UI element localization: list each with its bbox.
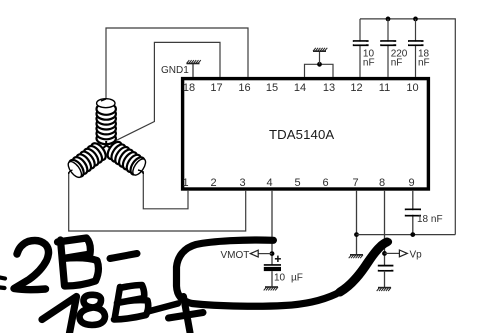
svg-text:5: 5 — [294, 177, 300, 189]
C6 value label 18 nF — [417, 214, 443, 225]
node Vp junction — [382, 251, 387, 256]
node star point junction — [103, 141, 111, 149]
svg-text:12: 12 — [350, 82, 362, 94]
wire L2 end stub — [69, 170, 73, 174]
wire pin 9 down through C6 — [412, 190, 414, 235]
svg-text:18: 18 — [183, 82, 195, 94]
svg-text:7: 7 — [352, 177, 358, 189]
pin 15 label — [266, 82, 278, 94]
node rail junction at C3 — [413, 17, 418, 22]
wire bottom-right coil to pin 1 — [143, 171, 188, 209]
capacitor C5 at pin 8 — [378, 266, 394, 271]
handwritten digit 1 — [42, 297, 77, 333]
svg-text:nF: nF — [391, 57, 403, 68]
wire bracket to ground — [319, 52, 321, 65]
C3 value label 18 nF — [418, 48, 430, 68]
node pin9 bus junction — [410, 232, 415, 237]
node bracket junction — [317, 62, 322, 67]
pin 5 label — [294, 177, 300, 189]
svg-text:14: 14 — [294, 82, 306, 94]
wire top coil to pin 16 — [106, 28, 248, 99]
wire pin 8 down — [384, 190, 386, 266]
C4 value label 10 uF — [274, 273, 303, 284]
svg-text:18 nF: 18 nF — [417, 214, 443, 225]
pin 4 label — [266, 177, 272, 189]
svg-text:µF: µF — [291, 273, 303, 284]
op-amp U1 TDA5140A IC body — [183, 79, 429, 189]
C2 value label 220 nF — [391, 48, 408, 68]
handwritten minus sign — [110, 254, 137, 259]
pin 12 label — [350, 82, 362, 94]
wire C5 to ground — [384, 271, 386, 288]
svg-text:10: 10 — [406, 82, 418, 94]
svg-text:16: 16 — [238, 82, 250, 94]
capacitor C6 18nF — [405, 209, 421, 215]
wire rail to pin 10 through C3 — [415, 19, 417, 77]
svg-text:nF: nF — [418, 57, 430, 68]
handwritten digit 2 — [14, 241, 49, 290]
svg-text:3: 3 — [239, 177, 245, 189]
svg-text:VMOT: VMOT — [221, 250, 250, 261]
pin 16 label — [238, 82, 250, 94]
capacitor C3 18nF — [408, 41, 424, 45]
svg-text:nF: nF — [363, 57, 375, 68]
capacitor C4 10uF polarized — [264, 265, 281, 287]
wire pin 4 to VMOT node — [271, 190, 273, 265]
Vp label — [410, 250, 423, 261]
handwritten marker big curve — [177, 240, 389, 306]
svg-text:13: 13 — [323, 82, 335, 94]
pin 8 label — [379, 177, 385, 189]
handwritten letter B second — [114, 285, 148, 320]
Vp arrow — [399, 250, 407, 257]
node rail junction at C2 — [386, 17, 391, 22]
pin 18 label — [183, 82, 195, 94]
pin 11 label — [379, 82, 390, 94]
ground above pins 14-13 — [313, 48, 327, 51]
wire VMOT branch — [258, 253, 272, 255]
svg-text:1: 1 — [182, 177, 188, 189]
handwritten plus sign — [169, 297, 204, 333]
ground below C5 — [377, 288, 391, 291]
wire pin 7 down to ground — [356, 190, 358, 254]
node VMOT junction — [270, 251, 275, 256]
pin 3 label — [239, 177, 245, 189]
handwritten marker curve rise overlay — [340, 242, 387, 292]
left edge mark — [0, 278, 5, 289]
pin 10 label — [406, 82, 418, 94]
wire bottom-left coil to pin 3 — [69, 172, 246, 231]
svg-text:TDA5140A: TDA5140A — [269, 127, 334, 142]
inductor L3 bottom-right motor winding — [105, 139, 148, 177]
svg-text:GND1: GND1 — [161, 65, 189, 76]
pin 1 label — [182, 177, 188, 189]
capacitor C1 10nF — [353, 41, 369, 45]
svg-text:Vp: Vp — [410, 250, 423, 261]
svg-text:6: 6 — [322, 177, 328, 189]
plus polarity mark C4 — [275, 256, 281, 262]
inductor L2 bottom-left motor winding — [65, 141, 108, 180]
bus wire pins 7-9 to rail drop — [357, 234, 456, 236]
wire Vp branch — [385, 252, 400, 254]
pin 9 label — [408, 177, 414, 189]
handwritten letter B first — [58, 238, 99, 286]
bracket wire pins 14-13 — [305, 64, 334, 77]
wire star point to pin 17 — [107, 42, 220, 145]
pin 2 label — [210, 177, 216, 189]
GND1 label — [161, 65, 189, 76]
svg-text:11: 11 — [379, 82, 390, 94]
pin 6 label — [322, 177, 328, 189]
pin 7 label — [352, 177, 358, 189]
ground below C4 — [264, 287, 278, 290]
svg-text:2: 2 — [210, 177, 216, 189]
ground below pin 7 — [349, 255, 363, 258]
node pin7 bus junction — [354, 232, 359, 237]
svg-text:17: 17 — [210, 82, 222, 94]
wire rail to pin 12 through C1 — [359, 19, 361, 77]
wire GND1 to pin 18 — [192, 63, 194, 77]
pin 17 label — [210, 82, 222, 94]
svg-text:10: 10 — [274, 273, 286, 284]
handwritten connector stroke — [148, 304, 178, 312]
svg-text:15: 15 — [266, 82, 278, 94]
VMOT label — [221, 250, 250, 261]
wire L3 end stub — [138, 170, 143, 174]
wire rail to pin 11 through C2 — [387, 19, 389, 77]
pin 14 label — [294, 82, 306, 94]
svg-text:9: 9 — [408, 177, 414, 189]
top supply rail wire — [360, 19, 455, 235]
svg-text:4: 4 — [266, 177, 272, 189]
handwritten digit 8 — [80, 295, 106, 325]
pin 13 label — [323, 82, 335, 94]
svg-text:8: 8 — [379, 177, 385, 189]
capacitor C2 220nF — [380, 41, 396, 45]
C1 value label 10 nF — [363, 48, 375, 68]
VMOT arrow — [250, 250, 258, 257]
ground GND1 symbol — [187, 60, 201, 63]
inductor L1 top motor winding — [97, 99, 116, 145]
